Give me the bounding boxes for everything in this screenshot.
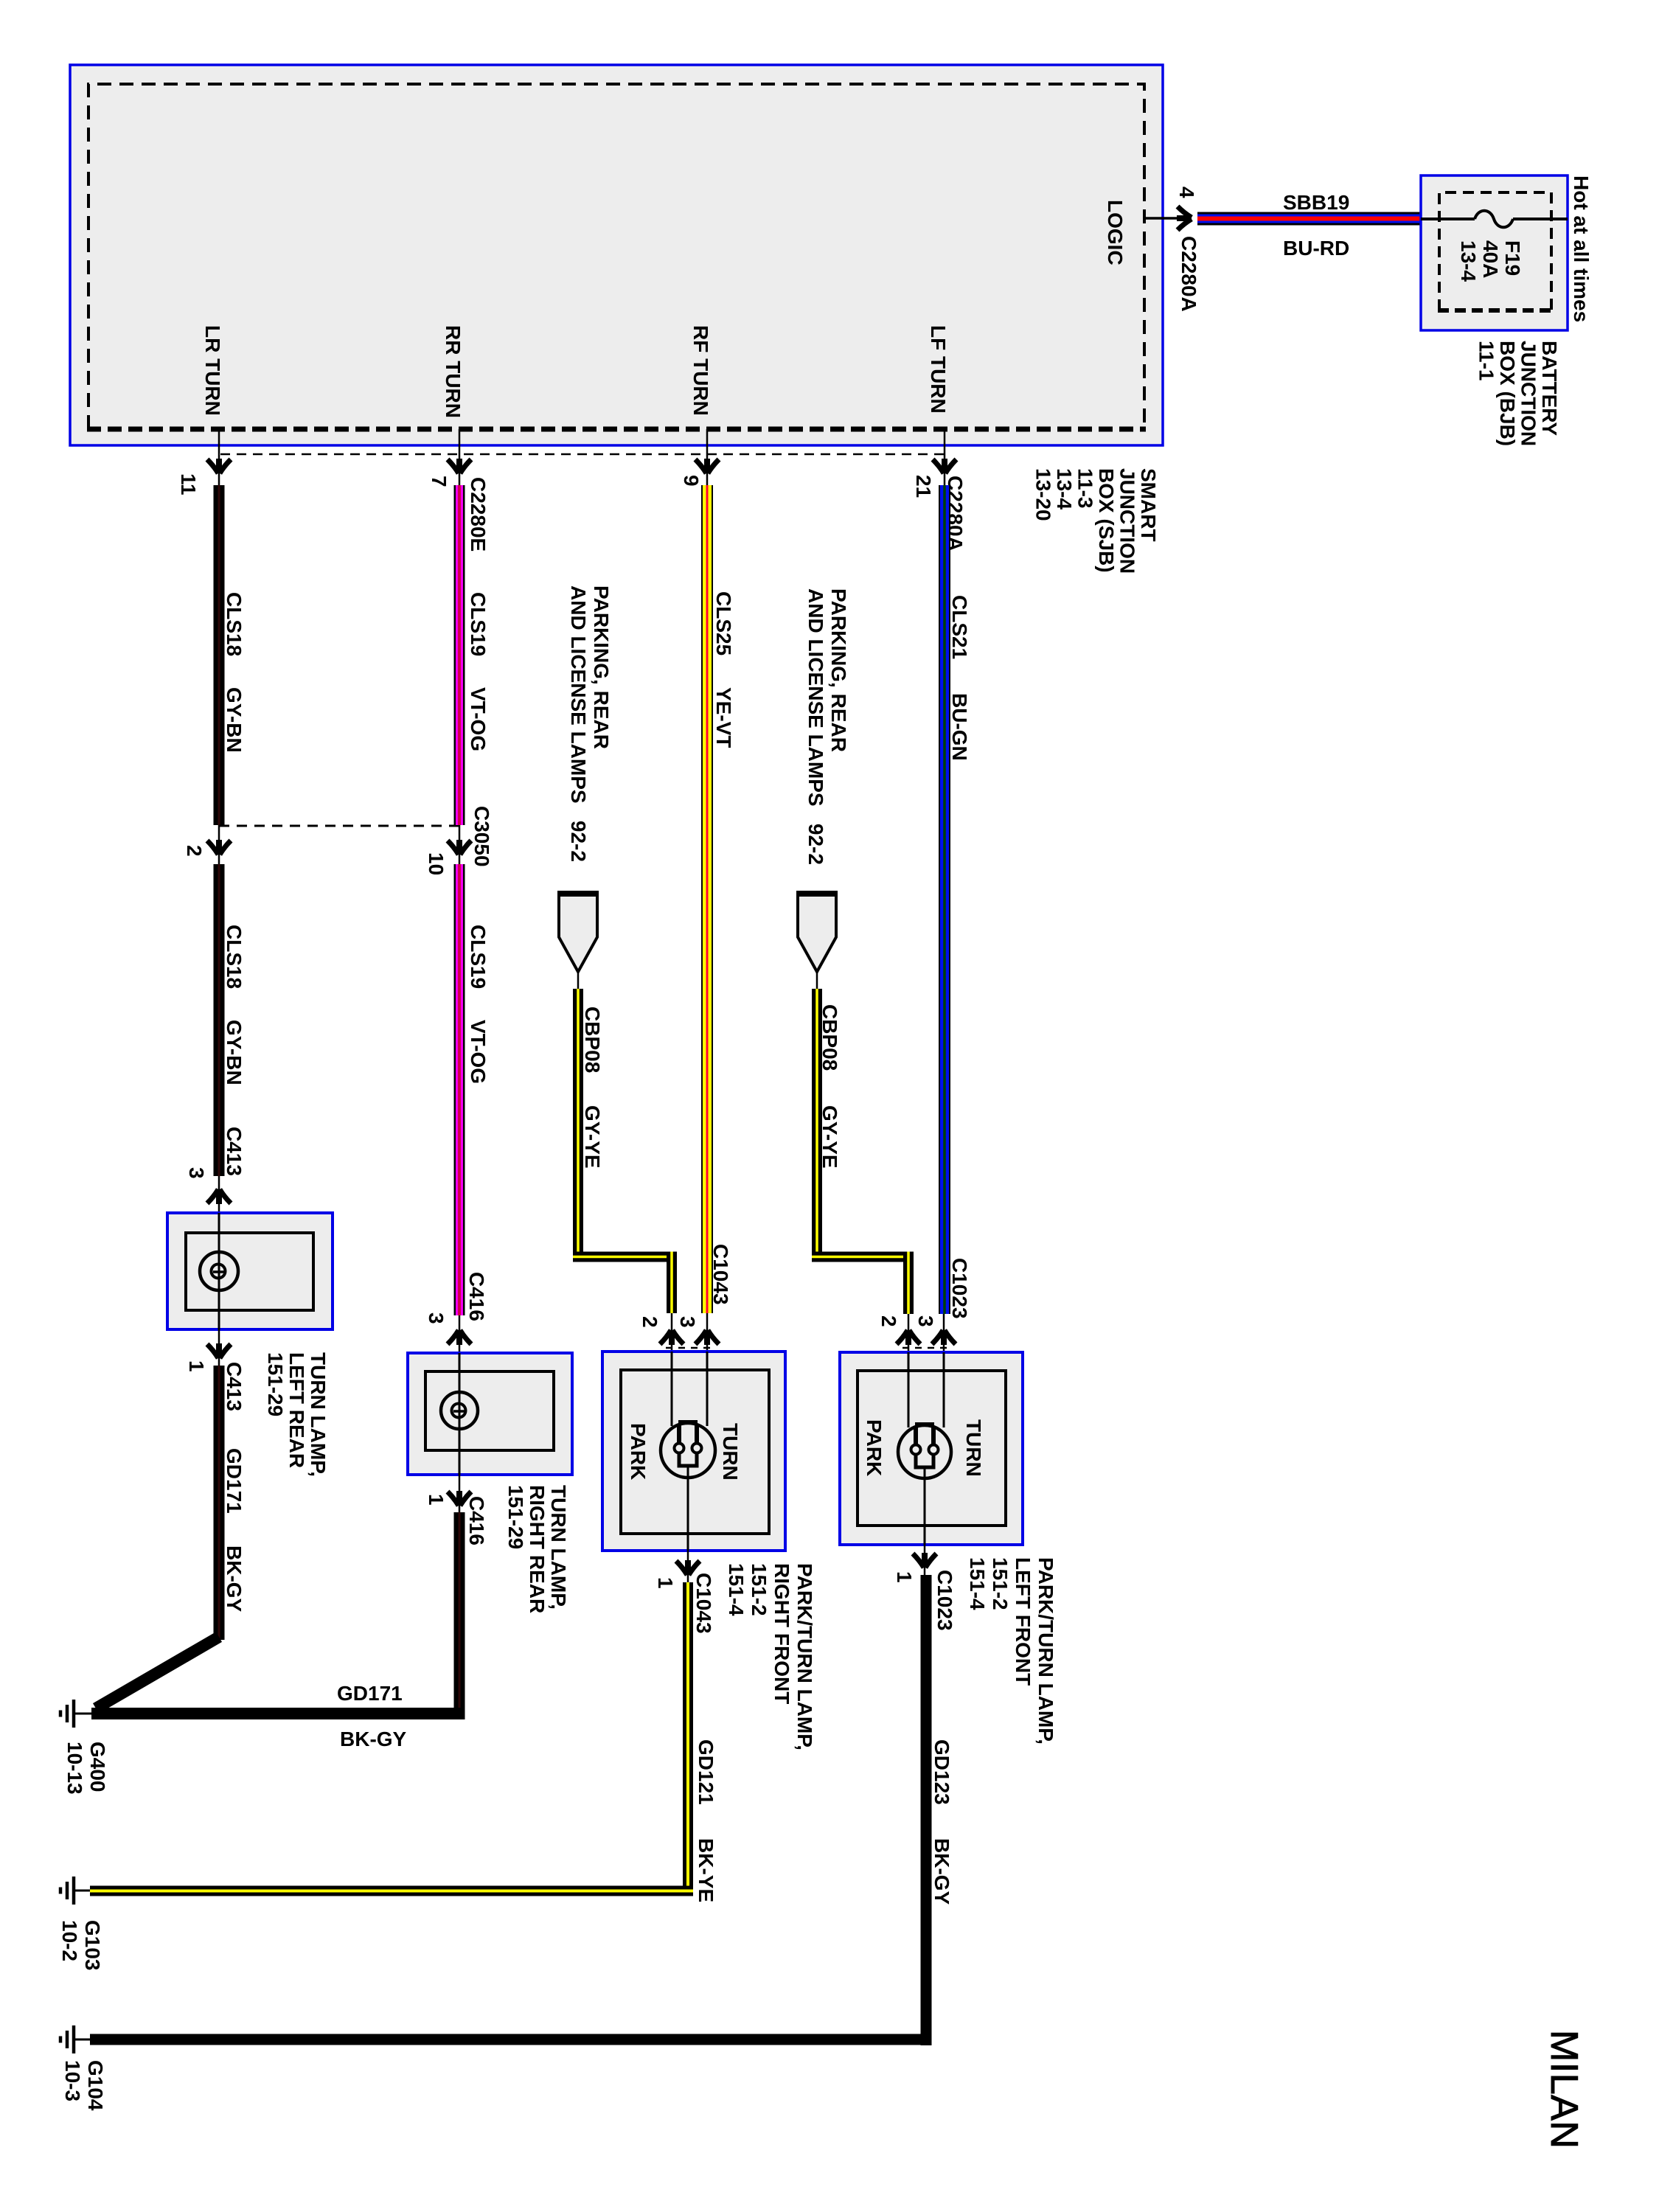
svg-text:CLS21: CLS21	[948, 595, 971, 659]
svg-text:3: 3	[185, 1167, 208, 1179]
svg-text:C1043: C1043	[709, 1244, 732, 1305]
battery junction box BJB	[1421, 175, 1568, 330]
wire GD121 BK-YE	[90, 1582, 693, 1896]
svg-text:3: 3	[676, 1316, 699, 1328]
svg-text:1: 1	[425, 1494, 448, 1506]
svg-text:LOGIC: LOGIC	[1104, 200, 1127, 265]
svg-text:C3050: C3050	[470, 806, 493, 867]
svg-text:4: 4	[1175, 187, 1198, 198]
connector C1043 dashed boundary	[666, 1347, 713, 1349]
connector C1023 dashed boundary	[902, 1347, 950, 1349]
wire CLS25 YE-VT	[701, 485, 713, 1313]
wire CLS19 VT-OG upper segment	[454, 485, 465, 825]
svg-text:TURN: TURN	[719, 1423, 742, 1481]
off-page connector PARKING REAR (1)	[557, 893, 599, 990]
svg-text:2: 2	[639, 1316, 661, 1328]
svg-text:GY-BN: GY-BN	[223, 1020, 246, 1085]
svg-text:2: 2	[183, 845, 206, 857]
svg-text:LF TURN: LF TURN	[927, 325, 950, 414]
svg-text:BU-RD: BU-RD	[1283, 237, 1349, 260]
svg-text:RF TURN: RF TURN	[689, 325, 712, 416]
junction node 2	[207, 825, 231, 866]
svg-text:C413: C413	[223, 1362, 246, 1411]
svg-text:MILAN: MILAN	[1543, 2030, 1585, 2149]
ground G400	[60, 1700, 91, 1728]
turn lamp right rear	[408, 1353, 572, 1475]
svg-text:GD171: GD171	[223, 1448, 246, 1514]
ground G103	[60, 1877, 90, 1905]
svg-text:9: 9	[680, 475, 703, 487]
SJB pin 4	[1144, 206, 1192, 230]
wire CLS18 GY-BN upper segment	[214, 485, 225, 825]
svg-text:1: 1	[893, 1571, 916, 1583]
lamp output pin 1	[207, 1329, 231, 1368]
svg-text:C413: C413	[223, 1127, 246, 1176]
SJB pin 9 lead	[695, 429, 719, 487]
svg-text:BU-GN: BU-GN	[948, 693, 971, 761]
svg-text:3: 3	[914, 1315, 937, 1327]
svg-text:G40010-13: G40010-13	[63, 1742, 109, 1795]
wire CLS18 GY-BN lower segment	[214, 864, 225, 1176]
wire GD123 BK-GY	[90, 1575, 932, 2045]
svg-text:C416: C416	[465, 1272, 488, 1321]
wire GD171 BK-GY from left rear lamp	[96, 1366, 225, 1708]
svg-text:CLS18: CLS18	[223, 592, 246, 656]
svg-text:VT-OG: VT-OG	[467, 1020, 490, 1084]
wire CBP08 GY-YE (right front)	[573, 989, 677, 1313]
svg-text:GY-YE: GY-YE	[818, 1105, 841, 1169]
svg-text:1: 1	[654, 1577, 677, 1589]
SJB pin 21 lead	[933, 429, 956, 487]
lamp input pin 3 (right rear)	[448, 1315, 471, 1353]
svg-text:Hot at all times: Hot at all times	[1570, 175, 1593, 322]
svg-text:C2280E: C2280E	[467, 477, 490, 552]
wire CLS19 VT-OG lower segment	[454, 864, 465, 1315]
connector C2280 dashed boundary	[220, 453, 946, 456]
svg-text:C1023: C1023	[948, 1258, 971, 1319]
svg-text:TURN: TURN	[962, 1419, 985, 1477]
lamp output pin 1 (right rear)	[448, 1475, 471, 1515]
splice jumper dashed (C3050)	[219, 825, 459, 827]
lamp output pin 1 (right front)	[676, 1551, 700, 1585]
SJB pin 11 lead	[207, 429, 231, 487]
off-page connector PARKING REAR (2)	[796, 893, 838, 990]
svg-text:21: 21	[912, 475, 935, 498]
svg-text:C2280A: C2280A	[1178, 236, 1200, 312]
ground G104	[60, 2025, 90, 2053]
svg-text:PARK: PARK	[863, 1419, 886, 1476]
svg-text:10: 10	[425, 852, 448, 875]
fuse F19 40A	[1421, 211, 1568, 228]
svg-text:C416: C416	[465, 1496, 488, 1545]
svg-text:GY-BN: GY-BN	[223, 687, 246, 753]
lamp input pin 2 (left front)	[897, 1314, 920, 1352]
lamp input pin 3 (left front)	[932, 1314, 956, 1352]
svg-text:3: 3	[425, 1312, 448, 1324]
smart junction box SJB outline	[70, 65, 1163, 445]
svg-text:BK-GY: BK-GY	[340, 1728, 407, 1750]
wire CBP08 GY-YE (left front)	[812, 989, 914, 1314]
svg-text:BK-YE: BK-YE	[695, 1838, 717, 1902]
svg-text:CLS19: CLS19	[467, 592, 490, 656]
wire GD171 BK-GY ground run	[91, 1512, 465, 1719]
lamp input pin 3 (right front)	[695, 1313, 719, 1353]
park/turn lamp right front	[602, 1352, 785, 1551]
svg-text:PARK: PARK	[627, 1423, 650, 1480]
svg-text:RR TURN: RR TURN	[442, 325, 465, 418]
svg-text:CLS19: CLS19	[467, 925, 490, 989]
lamp output pin 1 (left front)	[913, 1545, 936, 1578]
svg-text:CLS18: CLS18	[223, 925, 246, 989]
lamp input pin 2 (right front)	[660, 1313, 684, 1353]
wire CLS21 BU-GN	[939, 485, 950, 1314]
svg-text:CBP08: CBP08	[818, 1004, 841, 1071]
svg-text:GD123: GD123	[931, 1739, 953, 1805]
junction node 10 / C3050	[448, 825, 471, 866]
SJB pin 7 lead	[448, 429, 471, 487]
svg-text:7: 7	[428, 476, 451, 487]
svg-text:SBB19: SBB19	[1283, 191, 1349, 214]
svg-text:BK-GY: BK-GY	[931, 1838, 953, 1905]
svg-text:11: 11	[177, 473, 200, 495]
svg-text:C1043: C1043	[692, 1573, 715, 1634]
svg-text:F1940A13-4: F1940A13-4	[1457, 240, 1524, 282]
svg-text:YE-VT: YE-VT	[712, 687, 735, 748]
svg-text:CBP08: CBP08	[581, 1006, 604, 1073]
turn lamp left rear	[167, 1213, 333, 1329]
svg-text:CLS25: CLS25	[712, 591, 735, 655]
svg-text:LR TURN: LR TURN	[201, 325, 224, 416]
park/turn lamp left front	[840, 1352, 1023, 1545]
svg-text:C1023: C1023	[933, 1570, 956, 1631]
svg-text:GD121: GD121	[695, 1739, 717, 1805]
svg-text:1: 1	[185, 1360, 208, 1372]
svg-text:GY-YE: GY-YE	[581, 1105, 604, 1169]
svg-text:2: 2	[877, 1315, 900, 1327]
svg-text:BK-GY: BK-GY	[223, 1545, 246, 1613]
svg-text:GD171: GD171	[337, 1682, 403, 1705]
lamp input pin 3	[207, 1176, 231, 1213]
wire SBB19 BU-RD	[1197, 212, 1421, 226]
svg-text:VT-OG: VT-OG	[467, 687, 490, 751]
